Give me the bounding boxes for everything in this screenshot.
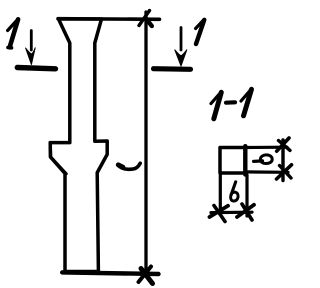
section digit 1 (left) [10, 19, 19, 47]
dim b right: dimension line [281, 140, 284, 181]
label l (script) [118, 163, 140, 169]
section title 1-1 [211, 89, 252, 119]
section digit 1 (right) [196, 20, 204, 44]
dimension line l (vertical) [144, 12, 147, 274]
dim b bottom: label b [231, 182, 238, 201]
corbel left step detail [50, 143, 66, 174]
bottom line with extension [62, 272, 158, 274]
dim b right: tick bottom [277, 165, 292, 179]
section arrow left [30, 31, 33, 51]
dim b right: tick top [277, 138, 289, 151]
cross-section square [220, 148, 246, 174]
dim b right: extension lines [246, 146, 288, 150]
section plane bar right [154, 66, 191, 72]
dim b bottom: tick right [237, 205, 254, 217]
dim b right: label b rotated [254, 155, 273, 164]
top extension line [58, 17, 160, 21]
tick top of dimension l [139, 11, 150, 26]
dim b bottom: tick left [210, 206, 229, 217]
tick bottom of dimension l [139, 267, 152, 283]
section arrow right [180, 28, 183, 51]
dim b bottom: extension lines [219, 175, 222, 214]
section plane bar left [17, 68, 55, 69]
column outline (elevation of pile with cap and corbel) [50, 19, 107, 272]
dim b bottom: dimension line [211, 211, 252, 215]
